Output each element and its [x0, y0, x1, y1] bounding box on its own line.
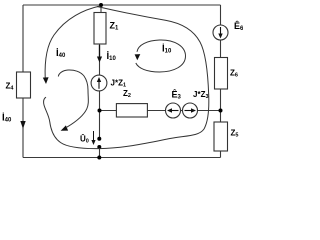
arrow inside E6 (down) [218, 27, 222, 39]
node terminal b [97, 145, 101, 149]
source E3 circle [166, 103, 181, 118]
svg-text:İ40: İ40 [2, 113, 12, 124]
wire center Z1 top stub [100, 5, 102, 13]
svg-text:Z2: Z2 [123, 89, 131, 99]
svg-text:J*Z3: J*Z3 [193, 90, 209, 100]
mesh arrow 2 curve [58, 70, 88, 127]
wire right Z6-junction [220, 89, 222, 122]
svg-text:İ10: İ10 [162, 44, 172, 55]
wire middle branch Z2 to E3 [147, 110, 165, 112]
current arrow I10 on center wire [97, 45, 102, 63]
wire top [23, 4, 221, 6]
svg-text:Z5: Z5 [231, 129, 239, 139]
svg-text:Û0: Û0 [80, 135, 89, 145]
arrow inside E3 (left) [167, 108, 179, 112]
mesh loop I10 ellipse [136, 40, 186, 72]
source J*Z3 circle [183, 103, 198, 118]
svg-text:Z1: Z1 [110, 21, 120, 32]
wire right Ê6-Z6 [220, 40, 222, 58]
arrow inside J*Z1 (up) [97, 77, 101, 89]
svg-text:İ10: İ10 [107, 51, 117, 62]
svg-text:İ40: İ40 [56, 48, 66, 59]
node dot top center [99, 3, 103, 7]
svg-text:J*Z1: J*Z1 [111, 79, 127, 89]
wire left [22, 5, 24, 158]
svg-text:Z4: Z4 [6, 82, 15, 92]
node dot center junction [98, 109, 102, 113]
wire bottom [23, 157, 221, 159]
arrow inside J*Z3 (right) [185, 108, 197, 112]
wire center terminal b to bottom [99, 147, 101, 158]
node dot bottom center [97, 156, 101, 160]
wire middle branch left [100, 110, 117, 112]
wire right top [220, 5, 222, 25]
current arrow I40 on left wire [20, 121, 25, 129]
resistor Z4 [17, 72, 31, 98]
svg-text:Ê3: Ê3 [172, 89, 182, 101]
resistor Z1 [94, 13, 106, 45]
mesh arrow I40 curve [45, 6, 100, 78]
wire center Z1 to source [99, 44, 101, 75]
resistor Z2 [116, 104, 147, 117]
node terminal a [97, 137, 101, 141]
wire middle branch E3 to JZ3 [181, 110, 183, 112]
node dot right junction [219, 109, 223, 113]
resistor Z6 [215, 58, 228, 90]
svg-text:Z6: Z6 [230, 69, 238, 79]
wire right Z5-bottom [220, 151, 222, 158]
wire center source to junction [99, 91, 101, 139]
resistor Z5 [214, 122, 228, 151]
source E6 circle [213, 25, 228, 40]
big loop curve [44, 7, 209, 149]
source J*Z1 circle [91, 75, 107, 91]
wire middle branch JZ3 to right [198, 110, 221, 112]
voltage arrow U0 [91, 131, 95, 145]
svg-text:Ê6: Ê6 [234, 20, 243, 32]
